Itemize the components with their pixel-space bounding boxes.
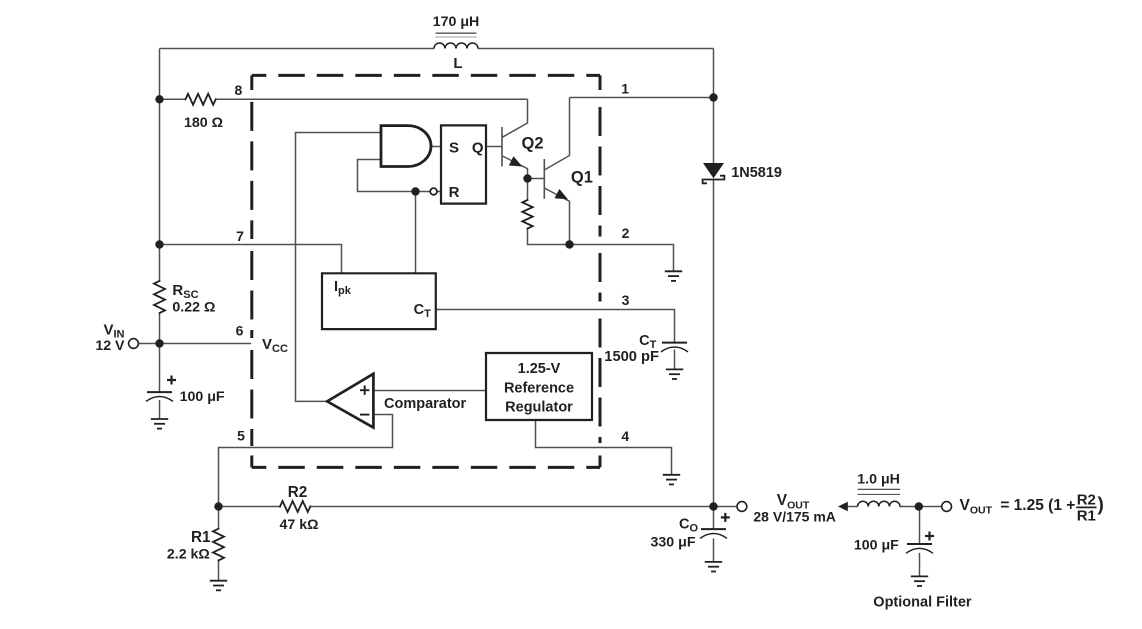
svg-text:R2: R2 [288,484,308,501]
svg-text:R2: R2 [1077,492,1096,509]
svg-text:6: 6 [236,323,244,339]
svg-text:Reference: Reference [504,381,574,397]
svg-text:Optional Filter: Optional Filter [873,595,972,611]
svg-text:S: S [449,140,459,157]
svg-text:): ) [1098,495,1104,516]
svg-text:R1: R1 [1077,507,1096,524]
svg-text:5: 5 [237,427,245,443]
svg-text:1.0 μH: 1.0 μH [857,472,900,488]
svg-text:2: 2 [622,225,630,241]
svg-text:1.25-V: 1.25-V [518,361,561,377]
svg-text:1: 1 [621,81,629,97]
svg-text:Comparator: Comparator [384,396,467,412]
svg-text:Q1: Q1 [571,168,593,186]
svg-text:R: R [449,184,460,201]
svg-text:Q2: Q2 [522,135,544,153]
svg-text:7: 7 [236,228,244,244]
svg-text:0.22 Ω: 0.22 Ω [172,300,215,316]
svg-text:170 μH: 170 μH [433,14,480,30]
svg-text:8: 8 [235,82,243,98]
svg-text:3: 3 [622,292,630,308]
svg-text:47 kΩ: 47 kΩ [280,517,319,533]
svg-text:330 μF: 330 μF [651,535,696,551]
svg-text:L: L [453,55,462,72]
svg-text:12 V: 12 V [95,338,125,354]
svg-text:Q: Q [472,140,484,157]
svg-text:2.2 kΩ: 2.2 kΩ [167,547,210,563]
svg-text:1N5819: 1N5819 [731,165,782,181]
svg-text:28 V/175 mA: 28 V/175 mA [753,509,836,525]
svg-text:100 μF: 100 μF [854,538,899,554]
svg-text:4: 4 [621,428,629,444]
svg-text:100 μF: 100 μF [180,389,225,405]
svg-text:1500 pF: 1500 pF [604,349,659,365]
svg-text:R1: R1 [191,529,211,546]
svg-text:Regulator: Regulator [505,400,573,416]
svg-text:180 Ω: 180 Ω [184,115,223,131]
